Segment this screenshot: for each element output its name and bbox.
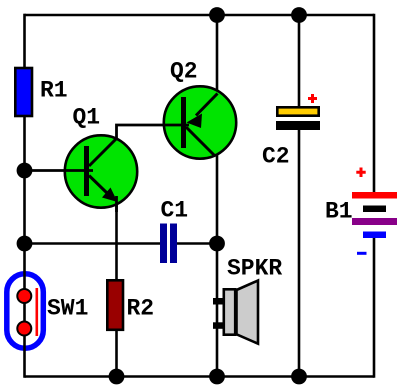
transistor Q1 emitter line bbox=[89, 176, 108, 195]
resistor R2 bbox=[107, 280, 123, 330]
battery B1 minus sign bbox=[357, 252, 367, 255]
capacitor C2 negative plate bbox=[276, 121, 320, 130]
wire Q2 emitter down to bottom rail (past speaker) bbox=[216, 155, 219, 377]
junction node top Q2 bbox=[209, 7, 225, 23]
wire left vertical (top to R1) bbox=[23, 14, 26, 67]
transistor Q2 base bar bbox=[181, 97, 186, 148]
junction node left middle rail bbox=[17, 236, 33, 252]
svg-text:B1: B1 bbox=[325, 198, 353, 224]
wire middle rail left of C1 bbox=[25, 242, 161, 245]
transistor Q2 collector arrow bbox=[187, 114, 203, 129]
battery B1 plate 2 bbox=[363, 206, 386, 213]
resistor R1 bbox=[15, 68, 32, 116]
transistor Q2 collector line bbox=[196, 94, 218, 116]
wire middle rail right of C1 bbox=[177, 242, 217, 245]
battery B1 positive plate bbox=[352, 192, 397, 199]
transistor Q1 body bbox=[65, 135, 137, 207]
switch SW1 contact dot 2 bbox=[17, 322, 31, 336]
wire top rail bbox=[25, 14, 375, 17]
junction node bottom C2 bbox=[291, 369, 307, 385]
svg-text:R2: R2 bbox=[127, 295, 155, 321]
capacitor C1 left plate bbox=[160, 224, 167, 264]
svg-text:C2: C2 bbox=[262, 144, 290, 170]
svg-text:R1: R1 bbox=[40, 78, 68, 104]
wire C2 top from top rail bbox=[298, 15, 301, 107]
transistor Q1 emitter arrow bbox=[102, 188, 118, 203]
svg-text:SW1: SW1 bbox=[47, 295, 88, 321]
battery B1 plate 3 bbox=[352, 218, 397, 225]
wire left vertical (R1 to bottom rail, through SW1) bbox=[23, 117, 26, 378]
capacitor C2 positive plate bbox=[277, 107, 318, 115]
svg-text:Q2: Q2 bbox=[170, 59, 198, 85]
wire Q2 collector from top rail bbox=[216, 15, 219, 94]
wire Q1 base from left rail bbox=[25, 169, 94, 172]
switch SW1 actuator line bbox=[35, 288, 38, 336]
transistor Q1 base bar bbox=[84, 146, 89, 196]
transistor Q2 emitter line bbox=[186, 127, 215, 156]
svg-text:C1: C1 bbox=[161, 197, 189, 223]
capacitor C1 right plate bbox=[170, 224, 177, 264]
junction node top C2 bbox=[291, 7, 307, 23]
junction node left base bbox=[17, 163, 33, 179]
speaker SPKR cone bbox=[237, 281, 259, 344]
speaker SPKR driver bbox=[224, 289, 235, 334]
wire Q1 emitter through circle edge bbox=[115, 196, 118, 212]
svg-text:SPKR: SPKR bbox=[227, 255, 282, 281]
wire bottom rail bbox=[25, 375, 375, 378]
switch SW1 blue stadium outline bbox=[7, 274, 44, 349]
speaker SPKR lead stub 2 bbox=[213, 322, 224, 329]
wire Q1 emitter down through middle rail to R2 bbox=[115, 190, 118, 279]
capacitor C2 plus sign bbox=[308, 94, 317, 103]
wire Q1 collector to Q2 base bbox=[117, 125, 190, 139]
svg-text:Q1: Q1 bbox=[73, 105, 101, 131]
transistor Q2 body bbox=[164, 86, 236, 158]
battery B1 plus sign bbox=[356, 168, 365, 178]
transistor Q1 collector line bbox=[89, 138, 118, 167]
junction node bottom R2 bbox=[109, 369, 125, 385]
wire C2 bottom to bottom rail bbox=[298, 129, 301, 377]
speaker SPKR lead stub 1 bbox=[213, 298, 224, 305]
battery B1 negative plate bbox=[363, 232, 386, 239]
wire right vertical (B1 to bottom rail) bbox=[373, 238, 376, 378]
wire R2 bottom to bottom rail bbox=[115, 331, 118, 377]
junction node bottom speaker bbox=[209, 369, 225, 385]
junction node middle rail Q2 bbox=[209, 236, 225, 252]
wire right vertical (top rail to B1) bbox=[373, 14, 376, 192]
switch SW1 contact dot 1 bbox=[17, 289, 31, 303]
